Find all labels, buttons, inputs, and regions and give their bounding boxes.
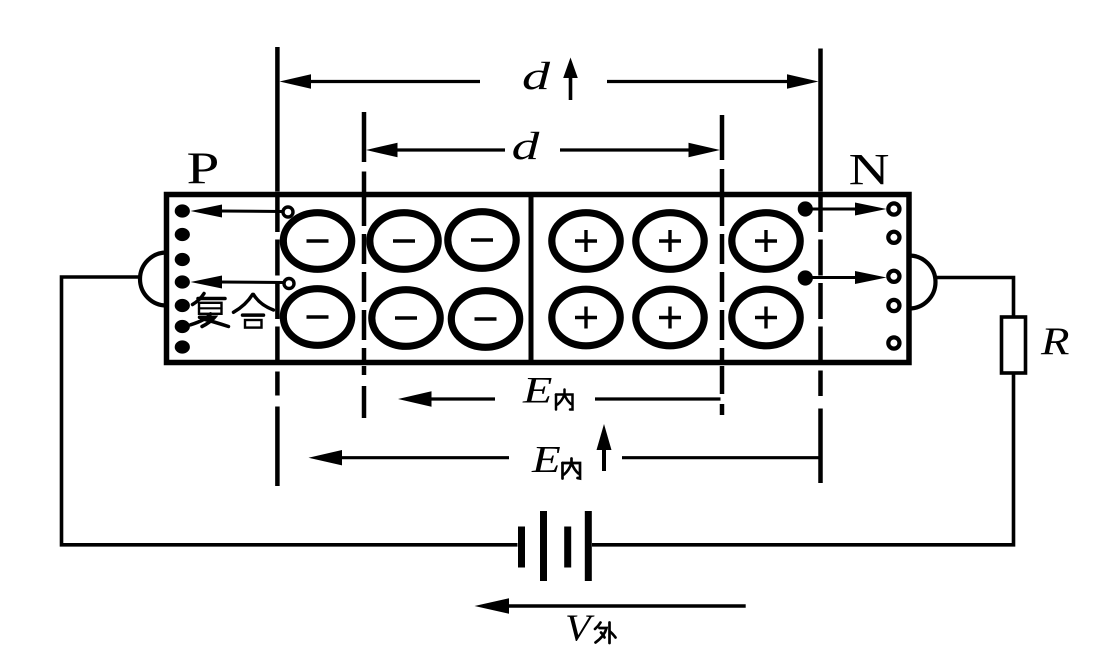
svg-text:P: P — [187, 144, 220, 194]
svg-text:E: E — [522, 370, 553, 411]
svg-text:d: d — [522, 55, 551, 98]
svg-text:E: E — [531, 439, 561, 481]
svg-text:R: R — [1040, 320, 1070, 363]
svg-text:V: V — [565, 606, 595, 647]
svg-text:N: N — [849, 146, 890, 195]
svg-text:d: d — [512, 125, 541, 168]
